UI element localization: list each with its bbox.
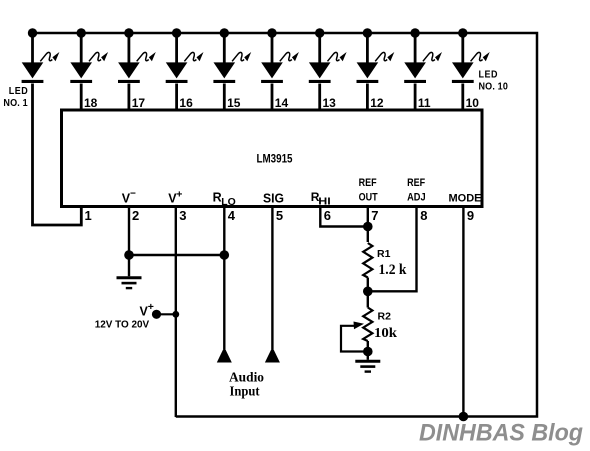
svg-text:2: 2 bbox=[132, 208, 139, 223]
svg-text:10: 10 bbox=[466, 96, 480, 110]
svg-text:15: 15 bbox=[227, 96, 241, 110]
svg-text:OUT: OUT bbox=[359, 192, 378, 204]
svg-text:R1: R1 bbox=[377, 248, 391, 260]
svg-text:1.2 k: 1.2 k bbox=[379, 262, 408, 278]
svg-text:LED: LED bbox=[479, 68, 499, 80]
svg-text:LM3915: LM3915 bbox=[257, 154, 294, 166]
svg-text:7: 7 bbox=[371, 208, 378, 223]
svg-text:13: 13 bbox=[323, 96, 337, 110]
svg-text:8: 8 bbox=[420, 208, 427, 223]
svg-text:REF: REF bbox=[407, 177, 425, 189]
svg-text:+: + bbox=[148, 301, 154, 313]
svg-text:−: − bbox=[130, 189, 136, 200]
svg-text:1: 1 bbox=[85, 208, 92, 223]
svg-text:14: 14 bbox=[275, 96, 289, 110]
svg-text:R2: R2 bbox=[378, 311, 392, 323]
svg-text:+: + bbox=[176, 189, 182, 201]
svg-text:4: 4 bbox=[228, 208, 236, 223]
svg-text:17: 17 bbox=[132, 96, 146, 110]
svg-text:11: 11 bbox=[418, 96, 431, 110]
svg-text:LO: LO bbox=[221, 197, 236, 208]
svg-text:16: 16 bbox=[179, 96, 193, 110]
svg-text:LED: LED bbox=[9, 85, 29, 97]
svg-text:6: 6 bbox=[324, 208, 331, 223]
svg-text:DINHBAS Blog: DINHBAS Blog bbox=[419, 420, 583, 447]
svg-text:NO. 1: NO. 1 bbox=[3, 97, 28, 109]
svg-text:18: 18 bbox=[84, 96, 98, 110]
svg-text:NO. 10: NO. 10 bbox=[479, 80, 509, 92]
svg-text:Audio: Audio bbox=[229, 371, 264, 386]
svg-text:10k: 10k bbox=[374, 326, 397, 341]
svg-text:3: 3 bbox=[179, 208, 186, 223]
svg-text:REF: REF bbox=[359, 177, 377, 189]
svg-text:R: R bbox=[213, 191, 222, 205]
svg-text:Input: Input bbox=[230, 385, 260, 400]
svg-text:9: 9 bbox=[467, 208, 474, 223]
svg-text:ADJ: ADJ bbox=[407, 192, 426, 204]
svg-text:5: 5 bbox=[276, 208, 283, 223]
svg-text:12: 12 bbox=[370, 96, 384, 110]
svg-text:MODE: MODE bbox=[449, 193, 483, 205]
svg-text:SIG: SIG bbox=[263, 192, 284, 206]
svg-text:12V TO 20V: 12V TO 20V bbox=[95, 319, 150, 331]
svg-text:HI: HI bbox=[318, 196, 331, 207]
